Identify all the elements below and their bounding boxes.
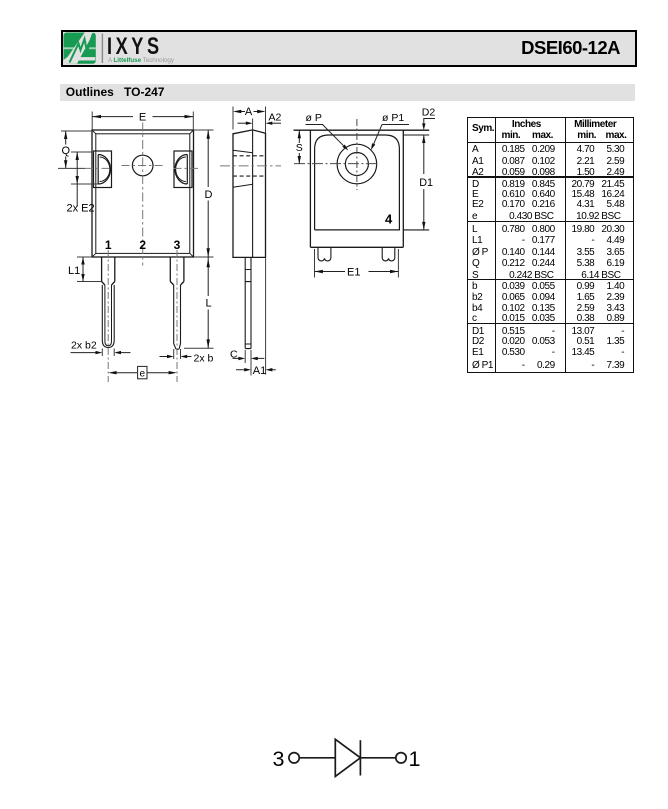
svg-text:A2: A2	[269, 112, 282, 124]
svg-text:e: e	[140, 369, 146, 380]
svg-text:1: 1	[409, 747, 421, 771]
svg-text:S: S	[296, 142, 303, 154]
svg-text:A: A	[245, 106, 253, 118]
svg-text:ø P1: ø P1	[382, 112, 404, 124]
svg-text:Q: Q	[62, 145, 71, 157]
svg-text:1: 1	[105, 238, 112, 252]
svg-text:3: 3	[174, 238, 181, 252]
svg-text:4: 4	[385, 212, 393, 227]
svg-text:2x E2: 2x E2	[67, 203, 95, 215]
svg-text:2: 2	[139, 238, 146, 252]
svg-text:2x b: 2x b	[194, 353, 214, 365]
svg-text:A1: A1	[253, 365, 266, 377]
svg-text:D1: D1	[419, 177, 433, 189]
svg-text:D2: D2	[422, 107, 436, 119]
svg-text:2x b2: 2x b2	[71, 340, 97, 352]
svg-text:D: D	[205, 189, 213, 201]
svg-text:E: E	[139, 112, 146, 124]
svg-text:L: L	[205, 298, 211, 310]
svg-text:L1: L1	[68, 265, 80, 277]
svg-text:ø P: ø P	[306, 112, 322, 124]
svg-text:C: C	[230, 349, 238, 361]
svg-text:E1: E1	[347, 266, 360, 278]
svg-text:3: 3	[273, 747, 285, 771]
